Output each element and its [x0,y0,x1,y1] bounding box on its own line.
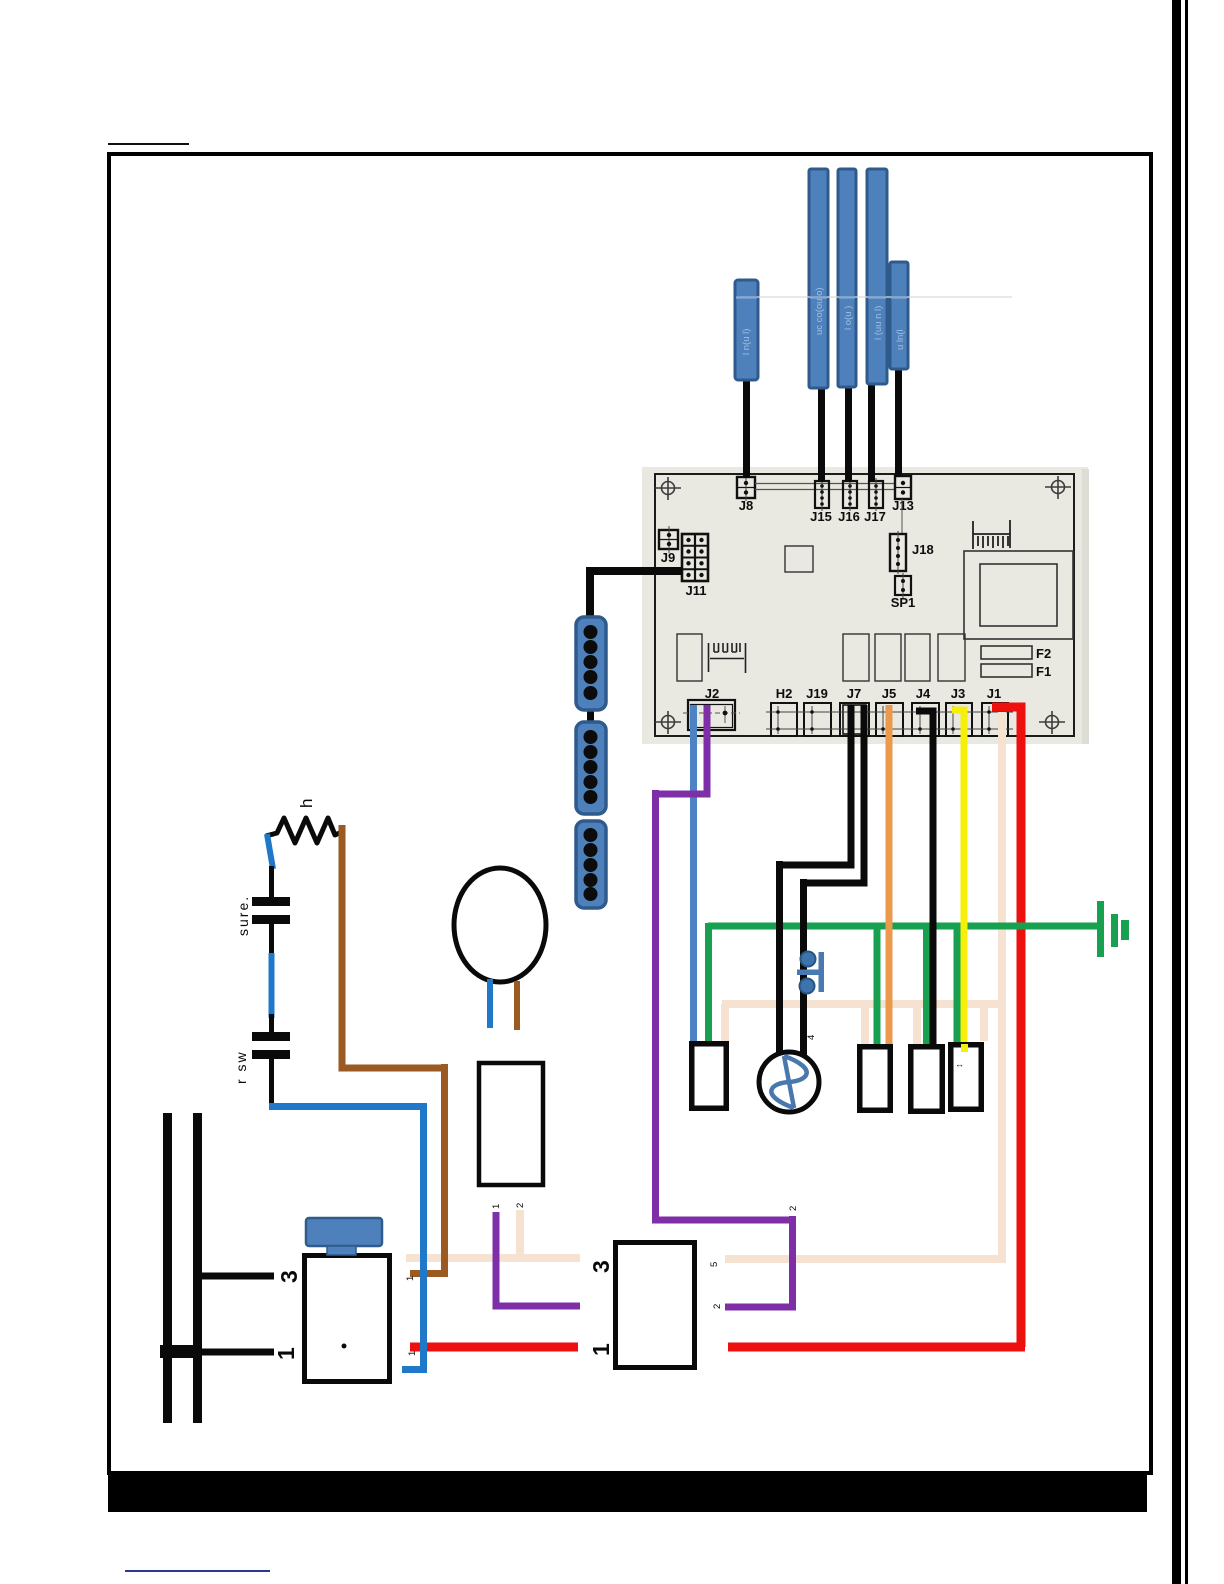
svg-text:2: 2 [788,1206,799,1211]
connector J2 [683,686,740,730]
edge connector CN1 [576,617,606,710]
svg-text:↔: ↔ [955,1059,964,1069]
wire harness lead to J13 [895,366,902,477]
wire black L2 to contactor pin 3 [197,1273,274,1280]
capacitor r sw plate A [252,1032,290,1041]
wire black lead [269,866,274,899]
wire black lead [269,1059,274,1107]
relay K1 [843,634,869,681]
connector J13 [892,476,914,513]
wire tan left stub [406,1210,580,1258]
svg-text:r sw: r sw [233,1050,249,1084]
wire brown resistor to contactor [339,825,449,1274]
wire blue segment top [267,834,273,869]
wire red J1 to relay box [728,707,1025,1347]
trace J13 to J18 [901,499,903,534]
junction blob at L1 [160,1345,202,1358]
thermal fuse block [479,1063,543,1185]
connector J9 [659,526,678,565]
wire yellow tip into V3 [961,1044,968,1052]
wire tan from J1 to relay box [725,712,1006,1263]
connector J7 [836,686,874,736]
wire black J4 to solenoid 2 [916,711,933,1046]
solenoid valve V2 [911,1047,943,1112]
wire purple J2 to relay box [652,705,796,1307]
svg-text:J16: J16 [838,509,860,524]
pressure switch SW1 [692,1044,727,1109]
capacitor r sw plate B [252,1050,290,1059]
connector J15 [810,478,832,524]
relay K3 [905,634,930,681]
svg-text:l (uu n l): l (uu n l) [873,306,884,340]
connector J17 [864,478,886,524]
connector SP1 [891,573,916,610]
svg-text:1: 1 [407,1351,418,1356]
wire harness lead to J17 [868,380,875,482]
contactor coil cap (blue) [306,1218,382,1246]
wire harness lead to J16 [845,383,852,482]
wire from edge connector to J11 [590,571,682,618]
svg-text:h: h [297,799,316,808]
heatsink HS1 [973,520,1010,549]
svg-text:1: 1 [588,1343,614,1356]
connector J3 [941,686,977,736]
svg-text:SP1: SP1 [891,595,916,610]
svg-text:1: 1 [405,1276,416,1281]
wire green drop to solenoid 1 [874,926,881,1047]
power line L1 [163,1113,172,1423]
scan seam line [740,296,1012,298]
wire yellow J3 to solenoid 3 [952,710,964,1051]
svg-text:J9: J9 [661,550,675,565]
wire purple left stub [493,1212,581,1306]
connector J4 [907,686,944,736]
edge connector CN2 [576,722,606,814]
svg-text:H2: H2 [776,686,793,701]
thermostat symbol TH1 [797,952,824,994]
relay K5 [677,634,702,681]
mounting hole bottom-left [655,711,681,734]
relay box B2 [616,1243,695,1368]
BOARD [642,467,1089,744]
wire green drop to solenoid 3 [954,926,961,1045]
svg-text:J2: J2 [705,686,719,701]
contactor box B1 [305,1256,390,1382]
svg-text:J15: J15 [810,509,832,524]
TOPCONN [735,169,1012,482]
edge connector CN3 [576,821,606,908]
svg-text:3: 3 [588,1260,614,1273]
svg-text:uc co(ou o): uc co(ou o) [814,287,825,335]
svg-text:4: 4 [806,1035,817,1040]
svg-text:J7: J7 [847,686,861,701]
wire green drop to pressure switch [705,923,712,1044]
svg-text:2: 2 [515,1203,526,1208]
drain motor M2 [759,1052,819,1112]
wire black L1 to contactor pin 1 [163,1349,274,1356]
connector J18 [890,531,934,574]
harness connector P17 [867,169,887,384]
wire green drop to solenoid 2 [923,926,930,1047]
svg-text:J18: J18 [912,542,934,557]
svg-text:J4: J4 [916,686,931,701]
heatsink HS2 [709,643,746,673]
harness connector P16 [838,169,856,387]
control board U1 (PCB body) [642,467,1088,744]
wire tan harness horizontal [722,1004,1001,1049]
harness connector P15 [809,169,828,388]
svg-text:J5: J5 [882,686,896,701]
svg-text:3: 3 [276,1270,302,1283]
mounting hole top-left [655,477,681,500]
wire black J7 to motor lead 1 [780,705,855,1058]
connector J8 [737,474,755,513]
connector H2 [766,686,802,736]
wire blue capacitor lead [487,979,493,1028]
svg-text:J3: J3 [951,686,965,701]
connector J16 [838,478,860,524]
LEFTCIRCUIT [233,799,344,1107]
bus wires J8 to J13 [755,483,895,485]
LEFTBLOCKS [576,571,682,908]
svg-text:J17: J17 [864,509,886,524]
IC chip square [785,546,813,572]
svg-text:1: 1 [491,1204,502,1209]
run capacitor C1 [454,868,546,982]
wire link between edge connectors [587,708,594,724]
wire blue segment mid [269,953,275,1018]
svg-text:sure.: sure. [235,895,251,936]
resistor R1 (heater) [266,818,344,843]
COMPONENTS [273,868,1129,1382]
connector J1 [977,686,1013,736]
wire black J7 to motor lead 2 [804,705,868,1060]
relay K2 [875,634,901,681]
harness connector P8 [735,280,758,380]
svg-text:1: 1 [273,1347,299,1360]
wire brown capacitor lead [514,981,520,1030]
svg-text:2: 2 [712,1304,723,1309]
wire harness lead to J15 [818,383,825,482]
svg-text:l o(u ): l o(u ) [843,306,854,330]
svg-text:J19: J19 [806,686,828,701]
wire black lead [269,924,274,958]
svg-text:J1: J1 [987,686,1001,701]
transformer T1 [964,551,1073,639]
fuse F2 [981,646,1032,659]
mounting hole bottom-right [1039,711,1065,734]
solenoid valve V3 [951,1045,982,1110]
capacitor pressure switch plate A [252,897,290,906]
svg-text:5: 5 [709,1262,720,1267]
connector J19 [799,686,836,736]
svg-text:F2: F2 [1036,646,1051,661]
wire blue switch chain to contactor [269,1103,427,1370]
wire green ground bus [708,923,1100,930]
wire red relay to contactor [410,1343,578,1352]
power line L2 [193,1113,202,1423]
relay K4 [938,634,965,681]
wire harness lead to J8 [743,372,750,478]
harness connector P13 [890,262,908,369]
fuse F1 [981,664,1032,677]
connector J5 [871,686,908,736]
svg-text:F1: F1 [1036,664,1051,679]
ground symbol GND [1097,901,1129,957]
svg-text:J8: J8 [739,498,753,513]
mounting hole top-right [1045,476,1071,499]
solenoid valve V1 [860,1047,891,1111]
wire black lead [269,1014,274,1033]
connector J11 [682,534,708,598]
svg-text:J13: J13 [892,498,914,513]
svg-text:u ln(l: u ln(l [895,329,906,350]
wire orange J5 to solenoid 1 [886,705,893,1046]
svg-text:J11: J11 [686,583,707,598]
capacitor pressure switch plate B [252,915,290,924]
svg-text:l n(u l): l n(u l) [741,329,752,355]
wire slate blue J2 to pressure switch [690,705,697,1043]
